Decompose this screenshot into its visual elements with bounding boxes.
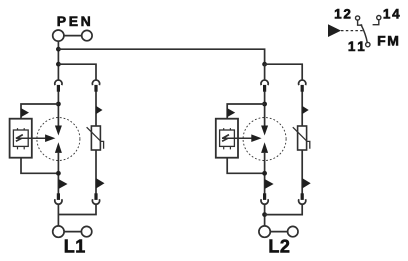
trigger unit U2 outer box: [216, 119, 238, 158]
node module2 bottom junction: [262, 171, 267, 176]
wire module2 varistor to L2: [265, 204, 303, 214]
varistor R1 body: [91, 126, 100, 150]
F3 lightning mark: [222, 135, 229, 142]
node module2 top junction: [262, 102, 267, 107]
svg-text:11: 11: [348, 39, 367, 54]
wire module1 trigger branch bottom: [21, 158, 58, 174]
wire module1 varistor upper: [95, 92, 97, 127]
connector module1 left top pin: [57, 85, 60, 92]
wire module2 center lower: [264, 153, 266, 194]
disconnect arrow trigger2 top: [227, 108, 235, 117]
FM contact 14 hook: [373, 20, 379, 25]
wire module2 center upper: [264, 92, 266, 126]
wire module2 left to L2: [264, 204, 266, 226]
wire L2 bridge: [270, 231, 287, 233]
terminal L1 right circle: [81, 226, 91, 236]
connector module2 right top pin: [301, 85, 304, 92]
terminal L2 left circle: [259, 226, 270, 237]
spark gap F2 lower electrode: [55, 142, 62, 153]
wire module1 left to L1: [57, 204, 59, 226]
trigger unit U1 outer box: [10, 119, 32, 158]
wire module1 varistor to L1: [58, 204, 96, 214]
disconnect arrow varistor top: [96, 106, 103, 114]
terminal L1 left circle: [53, 226, 64, 237]
wire module1 center lower: [57, 153, 59, 194]
varistor R2 diagonal: [293, 127, 310, 149]
node PEN bus junction: [56, 47, 61, 52]
gas discharge tube F1 box: [13, 130, 28, 146]
wire PEN bridge: [64, 35, 82, 37]
connector module1 left top socket arc: [55, 80, 62, 85]
disconnect arrow trigger top: [21, 108, 29, 117]
F3 electrode pins: [224, 128, 231, 149]
wire module1 branch to varistor path: [58, 64, 96, 80]
connector module2 left bottom socket arc: [261, 199, 268, 204]
wire PEN down to bus: [57, 41, 59, 80]
FM contact 12 circle: [356, 16, 360, 20]
connector module1 right top socket arc: [92, 80, 99, 85]
F1 electrode pins: [18, 128, 25, 149]
svg-text:12: 12: [334, 7, 353, 22]
spark gap F4 upper electrode: [261, 126, 268, 136]
spark gap F4 dashed circle: [243, 118, 286, 161]
trigger arrow line: [16, 137, 46, 139]
trigger2 arrow head: [251, 134, 261, 142]
wire PEN bus to module 2: [58, 49, 264, 64]
wire L1 bridge: [64, 231, 81, 233]
node module1 branch junction: [56, 62, 61, 67]
trigger2 arrow line: [222, 137, 252, 139]
connector module1 right bottom socket arc: [92, 199, 99, 204]
node module1 top junction: [56, 102, 61, 107]
disconnect arrow module2 center bottom: [265, 179, 274, 189]
connector module2 left top pin: [263, 85, 266, 92]
FM actuator triangle: [328, 24, 341, 37]
connector module1 left bottom socket arc: [55, 199, 62, 204]
wire module1 center upper: [57, 92, 59, 126]
node module2 branch junction: [262, 62, 267, 67]
FM actuator dashed link: [341, 30, 363, 32]
wire module2 branch to varistor path: [265, 64, 303, 80]
wire module2 trigger branch bottom: [227, 158, 264, 174]
gas discharge tube F3 box: [220, 130, 235, 146]
svg-text:L1: L1: [64, 237, 86, 257]
FM contact 11 circle: [366, 42, 370, 46]
disconnect arrow module1 center bottom: [58, 179, 67, 189]
svg-text:14: 14: [383, 7, 402, 22]
wire module1 varistor lower: [95, 150, 97, 194]
trigger arrow head: [45, 134, 55, 142]
FM contact 12 hook: [358, 20, 363, 25]
FM contact 14 circle: [377, 16, 381, 20]
spark gap F2 upper electrode: [55, 126, 62, 136]
connector module2 left top socket arc: [261, 80, 268, 85]
FM movable contact arm: [361, 24, 368, 42]
wire module2 varistor lower: [301, 150, 303, 194]
wire module1 trigger branch top: [21, 104, 58, 119]
svg-text:PEN: PEN: [57, 13, 94, 29]
terminal L2 right circle: [288, 226, 298, 236]
connector module2 right bottom pin: [301, 193, 304, 200]
terminal PEN right circle: [82, 30, 92, 40]
wire module2 varistor upper: [301, 92, 303, 127]
wire module2 trigger branch top: [227, 104, 264, 119]
wire module2 left upper stub: [264, 64, 266, 80]
spark gap F2 dashed circle: [37, 118, 80, 161]
connector module1 right bottom pin: [94, 193, 97, 200]
svg-text:FM: FM: [377, 33, 400, 49]
disconnect arrow varistor2 top: [302, 106, 309, 114]
varistor R1 diagonal: [87, 127, 104, 149]
terminal PEN left circle: [53, 30, 64, 41]
connector module2 left bottom pin: [263, 193, 266, 200]
F1 lightning mark: [16, 135, 23, 142]
disconnect arrow varistor bottom: [96, 178, 105, 188]
disconnect arrow varistor2 bottom: [302, 178, 311, 188]
varistor R2 body: [298, 126, 307, 150]
svg-text:L2: L2: [268, 237, 290, 257]
connector module2 right bottom socket arc: [299, 199, 306, 204]
node module2 L2 junction: [262, 212, 267, 217]
connector module1 left bottom pin: [57, 193, 60, 200]
connector module1 right top pin: [94, 85, 97, 92]
node module1 bottom junction: [56, 171, 61, 176]
connector module2 right top socket arc: [299, 80, 306, 85]
spark gap F4 lower electrode: [261, 142, 268, 153]
